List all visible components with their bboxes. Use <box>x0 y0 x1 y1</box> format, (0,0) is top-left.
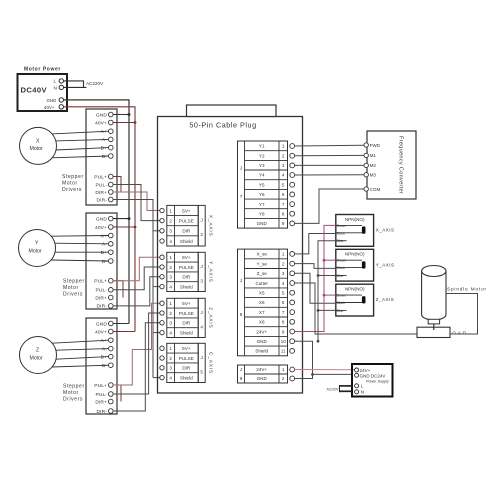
40V bus wire <box>64 107 136 332</box>
connector AC220V <box>339 385 341 392</box>
junction GND psu <box>311 373 314 376</box>
svg-text:40V+: 40V+ <box>95 329 107 335</box>
svg-text:PUL-: PUL- <box>95 392 107 398</box>
wire shield stub T4 pin4 <box>153 377 160 379</box>
svg-text:DIR-: DIR- <box>97 197 108 203</box>
junction 24V bus Y <box>323 259 326 262</box>
svg-text:M2: M2 <box>370 163 377 168</box>
svg-text:A-: A- <box>102 137 107 143</box>
svg-text:X: X <box>36 139 40 145</box>
svg-text:J: J <box>201 264 203 269</box>
svg-text:2: 2 <box>282 261 285 266</box>
wire D1 PUL- to X table pin2 <box>113 185 160 221</box>
wire 40V branch driver1 <box>113 122 135 124</box>
svg-text:2: 2 <box>282 376 285 381</box>
stepper driver 3 (Z) <box>86 318 117 415</box>
svg-text:DIR+: DIR+ <box>95 399 107 405</box>
svg-text:40V+: 40V+ <box>95 225 107 231</box>
svg-text:A+: A+ <box>101 233 107 239</box>
wire Y motor A- <box>55 242 109 245</box>
svg-text:DIR-: DIR- <box>97 304 108 310</box>
wire D3 DIR- to Z table pin3 <box>113 323 160 411</box>
svg-text:PULSE: PULSE <box>179 265 194 270</box>
junction 40V bus D1 <box>134 121 137 124</box>
svg-text:DIR: DIR <box>182 321 191 326</box>
wire Y motor B- <box>51 260 109 261</box>
wire brown Y branch <box>324 259 336 261</box>
junction blue bus Y <box>317 274 320 277</box>
svg-text:FWD: FWD <box>370 143 381 148</box>
svg-text:3: 3 <box>169 229 172 234</box>
wire L to AC220V <box>64 81 84 88</box>
junction GND bus D1 <box>128 113 131 116</box>
svg-text:PUL+: PUL+ <box>94 279 107 285</box>
wire shield stub T1 pin3 <box>153 230 160 232</box>
svg-text:8: 8 <box>282 320 285 325</box>
wire D1 DIR- to X table pin3 + shield bus <box>113 200 153 378</box>
svg-text:2: 2 <box>169 311 172 316</box>
svg-text:5V+: 5V+ <box>182 346 191 351</box>
svg-text:Y6: Y6 <box>259 192 265 197</box>
svg-text:PUL-: PUL- <box>95 182 107 188</box>
pin circles C table <box>160 346 164 380</box>
pin circles J7 <box>290 144 295 226</box>
svg-text:9: 9 <box>240 376 243 381</box>
svg-text:3: 3 <box>169 366 172 371</box>
svg-text:Motor: Motor <box>29 248 43 254</box>
svg-text:7: 7 <box>282 202 285 207</box>
svg-text:Blue: Blue <box>337 274 344 278</box>
svg-text:Y7: Y7 <box>259 202 265 207</box>
svg-text:NPN(NO): NPN(NO) <box>345 217 365 222</box>
svg-text:J: J <box>240 278 242 283</box>
svg-text:Y_AXIS: Y_AXIS <box>208 261 214 283</box>
svg-text:DIR: DIR <box>182 366 191 371</box>
svg-text:11: 11 <box>281 349 286 354</box>
svg-text:1: 1 <box>282 367 285 372</box>
svg-text:2: 2 <box>169 356 172 361</box>
svg-text:5V+: 5V+ <box>182 208 191 213</box>
wire J7 pin4 to M3 <box>295 174 364 176</box>
svg-text:PUL+: PUL+ <box>94 174 107 180</box>
wire Z motor A+ <box>52 340 109 343</box>
svg-text:N: N <box>54 85 57 90</box>
tick Y_AXIS <box>373 263 375 268</box>
svg-text:Stepper: Stepper <box>62 174 84 180</box>
svg-text:L: L <box>54 78 57 83</box>
svg-text:AC220V: AC220V <box>327 387 340 391</box>
wire Z motor B+ <box>56 357 109 360</box>
svg-text:Cutter: Cutter <box>255 281 268 286</box>
svg-text:NPN(NO): NPN(NO) <box>345 252 365 257</box>
svg-text:Y: Y <box>35 241 39 247</box>
svg-text:Frequency Converter: Frequency Converter <box>398 136 404 194</box>
svg-text:Motor: Motor <box>62 181 78 187</box>
svg-text:PULSE: PULSE <box>179 356 194 361</box>
svg-text:GND: GND <box>96 216 108 222</box>
svg-text:X7: X7 <box>259 310 265 315</box>
svg-text:9: 9 <box>282 221 285 226</box>
tool sensor O.A.D box <box>417 327 450 337</box>
svg-text:PULSE: PULSE <box>179 311 194 316</box>
svg-text:X_se: X_se <box>256 252 267 257</box>
svg-text:GND: GND <box>257 221 268 226</box>
wire J9 pin1 24V+ to power supply <box>295 369 355 371</box>
svg-text:40V+: 40V+ <box>95 120 107 126</box>
wire J7 pin3 to M2 <box>295 164 364 166</box>
motor Z <box>20 337 57 374</box>
input table J8 (X_se..Shield) <box>238 249 288 356</box>
motor X <box>20 127 57 164</box>
svg-text:2: 2 <box>169 219 172 224</box>
svg-text:4: 4 <box>169 330 172 335</box>
svg-text:5: 5 <box>200 370 203 375</box>
wire Z motor B- <box>52 365 109 367</box>
svg-text:B+: B+ <box>101 145 107 151</box>
wire tie PUL+/DIR+ driver3 <box>113 385 121 402</box>
plug top tab <box>187 105 277 117</box>
svg-text:DIR: DIR <box>182 229 191 234</box>
svg-text:Motor Power: Motor Power <box>24 67 61 73</box>
svg-text:2: 2 <box>200 232 203 237</box>
svg-text:Y3: Y3 <box>259 163 265 168</box>
svg-text:COM: COM <box>370 187 381 192</box>
GND bus to sensor blues <box>318 241 336 342</box>
wire J7 pin2 to M1 <box>295 154 364 156</box>
wire J9 pin2 GND to power supply <box>295 374 313 378</box>
svg-text:9: 9 <box>282 329 285 334</box>
GND bus wire <box>64 100 130 324</box>
svg-text:8: 8 <box>282 211 285 216</box>
svg-text:1: 1 <box>282 252 285 257</box>
svg-text:4: 4 <box>169 239 172 244</box>
svg-text:Stepper: Stepper <box>63 384 85 390</box>
svg-text:Blue: Blue <box>337 309 344 313</box>
svg-text:7: 7 <box>282 310 285 315</box>
svg-text:1: 1 <box>169 346 172 351</box>
svg-text:Y_AXIS: Y_AXIS <box>376 262 395 267</box>
connector table X_AXIS (J2) <box>167 205 205 246</box>
svg-text:1: 1 <box>169 208 172 213</box>
svg-text:M1: M1 <box>370 153 377 158</box>
wire X motor B- <box>52 156 109 158</box>
svg-text:B+: B+ <box>101 250 107 256</box>
svg-text:Y2: Y2 <box>259 153 265 158</box>
svg-text:Black: Black <box>337 301 346 305</box>
svg-text:Power Supply: Power Supply <box>366 379 390 383</box>
wire brown Z branch <box>324 294 336 296</box>
svg-text:NPN(NO): NPN(NO) <box>345 287 365 292</box>
svg-text:3: 3 <box>169 275 172 280</box>
svg-text:B+: B+ <box>101 354 107 360</box>
pin circles J8 <box>290 252 295 354</box>
connector table C_AXIS (J5) <box>167 343 205 382</box>
svg-text:X6: X6 <box>259 300 265 305</box>
junction blue bus Z <box>317 309 320 312</box>
wire blue Z branch <box>318 309 336 311</box>
svg-text:Motor: Motor <box>30 146 44 152</box>
wire J8 pin2 to Y sensor black <box>295 264 336 269</box>
svg-text:DIR+: DIR+ <box>95 190 107 196</box>
svg-text:24V+: 24V+ <box>256 329 267 334</box>
wire O.A.D to spindle <box>446 294 478 335</box>
pin circles J9 <box>290 367 295 381</box>
wire Y motor B+ <box>55 251 109 253</box>
svg-text:Z_se: Z_se <box>257 271 268 276</box>
wire X motor B+ <box>56 148 109 150</box>
wire J8 pin10 GND branch <box>295 341 352 374</box>
svg-text:DIR: DIR <box>182 275 191 280</box>
svg-text:DC40V: DC40V <box>21 86 48 95</box>
svg-text:1: 1 <box>282 144 285 149</box>
wire 40V branch driver2 <box>113 226 135 228</box>
tick X_AXIS <box>373 229 375 234</box>
svg-text:X_AXIS: X_AXIS <box>208 215 214 237</box>
svg-text:1: 1 <box>169 255 172 260</box>
wire D2 PUL+ to Y table pin1 <box>113 257 160 281</box>
svg-text:A-: A- <box>102 242 107 248</box>
svg-text:Y5: Y5 <box>259 182 265 187</box>
svg-text:PUL-: PUL- <box>95 288 107 294</box>
label Stepper Motor Drivers 2 <box>63 279 85 298</box>
svg-text:J: J <box>201 310 203 315</box>
svg-text:DIR+: DIR+ <box>95 295 107 301</box>
svg-text:40V+: 40V+ <box>44 105 55 110</box>
svg-text:Spindle Motor: Spindle Motor <box>447 287 487 292</box>
wire J8 pin3 to Z sensor black <box>295 273 336 303</box>
svg-text:5: 5 <box>282 182 285 187</box>
svg-text:GND: GND <box>257 376 268 381</box>
svg-text:A+: A+ <box>101 338 107 344</box>
svg-text:6: 6 <box>282 300 285 305</box>
wire X motor A- <box>56 139 109 141</box>
wire Z motor A- <box>56 349 109 351</box>
svg-text:Shield: Shield <box>180 284 193 289</box>
wire AC220V N <box>340 390 353 392</box>
svg-text:Brown: Brown <box>337 259 347 263</box>
wire blue Y branch <box>318 275 336 277</box>
wire D1 DIR+ to X table pin1 <box>113 192 160 211</box>
svg-text:B-: B- <box>102 363 107 369</box>
svg-text:5V+: 5V+ <box>182 255 191 260</box>
wire D2 DIR- to Y table pin3 <box>113 277 160 306</box>
svg-text:J: J <box>201 355 203 360</box>
pin circles X table <box>160 208 164 243</box>
svg-text:GND: GND <box>47 98 57 103</box>
svg-text:24V+: 24V+ <box>256 367 267 372</box>
svg-text:B-: B- <box>102 154 107 160</box>
wire D2 PUL- to Y table pin2 <box>113 267 160 290</box>
wire D3 PUL+ to Z table pin1 <box>113 303 160 385</box>
svg-text:Stepper: Stepper <box>63 279 85 285</box>
svg-text:7: 7 <box>240 194 243 199</box>
svg-text:10: 10 <box>281 339 286 344</box>
wire shield stub T2 pin4 <box>153 286 160 288</box>
svg-text:J: J <box>240 166 242 171</box>
svg-text:GND DC24V: GND DC24V <box>360 373 386 378</box>
connector table Z_AXIS (J4) <box>167 298 205 337</box>
svg-text:3: 3 <box>282 271 285 276</box>
svg-text:PUL+: PUL+ <box>94 383 107 389</box>
wire D3 PUL- to Z table pin2 <box>113 313 160 394</box>
wire AC220V L <box>340 385 353 387</box>
svg-text:2: 2 <box>282 153 285 158</box>
svg-text:Blue: Blue <box>337 239 344 243</box>
wire tie PUL+/DIR+ driver2 <box>113 281 123 298</box>
svg-text:J: J <box>201 217 203 222</box>
svg-text:GND: GND <box>257 339 268 344</box>
svg-text:X_AXIS: X_AXIS <box>376 228 395 233</box>
stepper driver 1 (X) <box>86 109 117 205</box>
wire J7 pin9 GND to COM <box>295 189 364 223</box>
svg-text:5: 5 <box>282 291 285 296</box>
spindle motor cylinder <box>422 266 446 331</box>
output table J7 (Y1..GND) <box>238 141 288 228</box>
svg-text:Brown: Brown <box>337 294 347 298</box>
svg-text:X8: X8 <box>259 320 265 325</box>
label Stepper Motor Drivers 3 <box>63 384 85 403</box>
stepper driver 2 (Y) <box>86 213 117 310</box>
wire X motor A+ <box>52 131 109 134</box>
svg-text:Y1: Y1 <box>259 144 265 149</box>
svg-text:50-Pin Cable Plug: 50-Pin Cable Plug <box>189 121 256 130</box>
svg-text:Shield: Shield <box>180 375 193 380</box>
svg-text:4: 4 <box>169 375 172 380</box>
svg-text:AC220V: AC220V <box>86 81 104 86</box>
wire 40V branch driver3 <box>113 331 135 333</box>
junction blue bus pin10 <box>317 340 320 343</box>
svg-text:4: 4 <box>169 284 172 289</box>
svg-text:B-: B- <box>102 259 107 265</box>
wire J8 pin1 to X sensor black <box>295 234 336 254</box>
svg-text:Y8: Y8 <box>259 211 265 216</box>
svg-text:J: J <box>240 367 242 372</box>
svg-text:C_AXIS: C_AXIS <box>208 352 214 374</box>
svg-text:GND: GND <box>96 112 108 118</box>
svg-text:Z: Z <box>36 348 39 354</box>
svg-text:M3: M3 <box>370 173 377 178</box>
svg-text:DIR-: DIR- <box>97 409 108 415</box>
svg-text:1: 1 <box>169 301 172 306</box>
svg-text:X5: X5 <box>259 291 265 296</box>
svg-text:A+: A+ <box>101 129 107 135</box>
svg-text:Z_AXIS: Z_AXIS <box>208 307 214 328</box>
junction 40V bus D2 <box>134 226 137 229</box>
svg-text:3: 3 <box>282 163 285 168</box>
power supply DC40V <box>18 74 68 111</box>
svg-text:Z_AXIS: Z_AXIS <box>376 297 395 302</box>
24V bus to sensor browns (crimson) <box>295 225 336 331</box>
power table J9 (24V+/GND) <box>238 365 288 383</box>
svg-text:Drivers: Drivers <box>62 187 82 193</box>
connector table Y_AXIS (J3) <box>167 252 205 291</box>
svg-text:3: 3 <box>200 279 203 284</box>
pin circles Y table <box>160 255 164 289</box>
svg-text:GND: GND <box>96 321 108 327</box>
svg-text:Motor: Motor <box>30 355 44 361</box>
svg-text:Y_se: Y_se <box>256 261 267 266</box>
wire GND branch driver1 <box>113 114 129 116</box>
svg-text:PULSE: PULSE <box>179 219 194 224</box>
wire tie PUL+/DIR+ driver1 <box>113 177 121 193</box>
50-pin cable plug box <box>158 117 303 394</box>
svg-text:Y4: Y4 <box>259 173 265 178</box>
svg-text:N: N <box>361 390 364 395</box>
svg-text:24V+: 24V+ <box>360 368 371 373</box>
wire GND branch driver2 <box>113 218 129 220</box>
proximity sensor Z NPN(NO) <box>336 284 374 316</box>
svg-text:3: 3 <box>169 321 172 326</box>
svg-text:O.A.D: O.A.D <box>452 331 467 336</box>
proximity sensor Y NPN(NO) <box>336 249 374 281</box>
svg-text:Drivers: Drivers <box>63 292 83 298</box>
pin circles Z table <box>160 301 164 335</box>
junction 24V bus Z <box>323 294 326 297</box>
svg-text:8: 8 <box>240 312 243 317</box>
tick Z_AXIS <box>373 298 375 303</box>
svg-text:Black: Black <box>337 266 346 270</box>
proximity sensor X NPN(NO) <box>336 215 374 247</box>
svg-text:Motor: Motor <box>63 390 79 396</box>
svg-text:Motor: Motor <box>63 285 79 291</box>
svg-text:5V+: 5V+ <box>182 301 191 306</box>
wire N to AC220V <box>64 86 87 88</box>
svg-text:2: 2 <box>169 265 172 270</box>
power supply DC24V box <box>352 364 393 397</box>
motor Y <box>19 230 56 267</box>
svg-text:6: 6 <box>282 192 285 197</box>
svg-text:Drivers: Drivers <box>63 397 83 403</box>
wire Y motor A+ <box>51 235 109 238</box>
svg-text:4: 4 <box>200 325 203 330</box>
svg-text:Shield: Shield <box>180 330 193 335</box>
svg-text:A-: A- <box>102 346 107 352</box>
svg-text:Shield: Shield <box>255 349 268 354</box>
wire J7 pin1 to FWD <box>295 144 364 147</box>
wire shield stub T3 pin4 <box>153 332 160 334</box>
svg-text:Brown: Brown <box>337 224 347 228</box>
svg-text:Black: Black <box>337 231 346 235</box>
svg-text:4: 4 <box>282 173 285 178</box>
svg-text:4: 4 <box>282 281 285 286</box>
label Stepper Motor Drivers 1 <box>62 174 84 193</box>
svg-text:Shield: Shield <box>180 239 193 244</box>
wire GND branch driver3 <box>113 323 129 325</box>
wire J8 pin4 Cutter to O.A.D <box>295 283 417 334</box>
frequency converter box <box>364 131 416 199</box>
junction GND bus D2 <box>128 217 131 220</box>
